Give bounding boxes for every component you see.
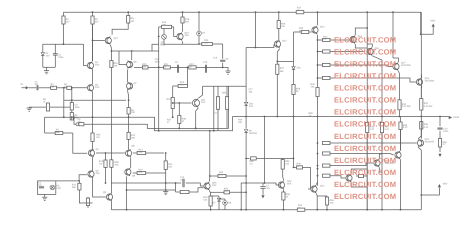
- ground stem mid: [165, 190, 167, 192]
- wire R11 down: [79, 190, 92, 203]
- wire branch t0: [330, 39, 350, 41]
- node bus2 209: [209, 130, 211, 132]
- capacitor C2: [35, 81, 40, 91]
- wire rail col 421: [420, 12, 422, 74]
- svg-text:Q26: Q26: [160, 43, 165, 46]
- wire vas base col: [172, 86, 174, 98]
- svg-text:100n: 100n: [443, 130, 449, 133]
- wire Q25 collector: [208, 131, 211, 182]
- node y61: [276, 61, 278, 63]
- transistor Q4: [88, 170, 100, 179]
- wire R59 top: [246, 157, 250, 159]
- resistor R54: [211, 188, 247, 194]
- node box left bus: [213, 130, 215, 132]
- resistor R38: [325, 196, 334, 210]
- transistor Q3: [88, 148, 99, 157]
- resistor R27: [276, 61, 285, 116]
- node Q9 rail: [126, 209, 128, 211]
- node y67 a: [158, 67, 160, 69]
- svg-text:C16: C16: [213, 57, 218, 60]
- node q25 rc: [175, 182, 177, 184]
- wire vas column: [158, 27, 160, 131]
- node cs bottom: [105, 182, 107, 184]
- svg-text:100p: 100p: [155, 61, 161, 64]
- node Q15 col: [366, 27, 368, 29]
- resistor R60: [250, 157, 294, 166]
- node R8 top: [127, 11, 129, 13]
- resistor R7: [45, 128, 73, 134]
- svg-text:ELCIRCUIT.COM: ELCIRCUIT.COM: [334, 120, 396, 129]
- resistor R56: [110, 160, 120, 183]
- resistor R6: [70, 113, 79, 121]
- label R49: [238, 119, 243, 125]
- svg-text:1N4148: 1N4148: [249, 132, 258, 135]
- wire bias cap column: [222, 44, 224, 59]
- ground zobel: [438, 154, 441, 157]
- transistor Q25: [204, 182, 217, 191]
- node lineA 92: [92, 116, 94, 118]
- node r58 rail: [283, 209, 285, 211]
- node input junction: [63, 87, 65, 89]
- resistor Rb3: [318, 76, 331, 79]
- resistor R29: [294, 27, 312, 34]
- wire Q6 collector: [131, 51, 133, 60]
- capacitor C8: [220, 58, 229, 62]
- resistor R14: [164, 153, 173, 183]
- node R2 top: [92, 11, 94, 13]
- node col382 rail: [381, 209, 383, 211]
- resistor R15: [133, 169, 166, 175]
- wire 165 to gnd wire: [165, 183, 167, 190]
- wire Q6-Q7: [127, 70, 129, 83]
- wire q25 rc down: [175, 183, 177, 192]
- node Q13 top: [317, 11, 319, 13]
- diode C5: [161, 28, 166, 46]
- node output line g: [381, 116, 383, 118]
- wire zd1 col extension: [293, 117, 295, 168]
- wire Q19 emitter: [351, 169, 367, 174]
- transistor Q11: [192, 99, 205, 108]
- wire rail drop 255: [255, 12, 257, 47]
- wire feedback column 2: [71, 110, 73, 113]
- wire Q14 emitter: [315, 193, 318, 209]
- resistor R24: [167, 98, 175, 109]
- resistor R20: [142, 63, 148, 69]
- svg-text:2SC5200: 2SC5200: [425, 80, 435, 83]
- capacitor C4: [38, 181, 44, 188]
- svg-text:Q13: Q13: [320, 26, 325, 29]
- wire R8 down: [112, 23, 128, 35]
- wire Q21 collector: [379, 167, 382, 172]
- node col393 top: [392, 11, 394, 13]
- wire Q18 emitter: [420, 86, 423, 98]
- wire Q13 collector: [317, 12, 319, 25]
- svg-text:0.22: 0.22: [424, 126, 429, 129]
- node -v: [420, 194, 422, 196]
- svg-text:2SC5200: 2SC5200: [401, 64, 411, 67]
- wire rail col 393: [392, 12, 394, 58]
- node lineA 128: [128, 116, 130, 118]
- node zd y176: [245, 175, 247, 177]
- capacitor C11: [215, 86, 220, 131]
- resistor R25: [222, 86, 229, 128]
- resistor Rc3: [323, 174, 331, 177]
- node y100 right: [128, 99, 130, 101]
- svg-text:2SC: 2SC: [185, 34, 190, 37]
- svg-text:0.22 5W: 0.22 5W: [402, 105, 411, 108]
- wire Q19 collector: [351, 182, 367, 187]
- svg-text:ELCIRCUIT.COM: ELCIRCUIT.COM: [334, 144, 396, 153]
- transistor Q5: [103, 191, 113, 201]
- wire feedback column 3: [71, 117, 73, 120]
- resistor R8: [127, 12, 135, 23]
- node Q11 bus: [195, 127, 197, 129]
- wire y183: [111, 182, 181, 184]
- watermark ELCIRCUIT.COM column: [334, 36, 396, 201]
- node bus1 195: [195, 127, 197, 129]
- resistor R44 inline rail: [297, 204, 305, 211]
- capacitor C3: [70, 103, 80, 111]
- wire y61 link: [277, 60, 293, 62]
- svg-text:ELCIRCUIT.COM: ELCIRCUIT.COM: [334, 156, 396, 165]
- node gnd y190: [165, 189, 167, 191]
- node vas y67: [158, 67, 160, 69]
- wire base link left: [241, 183, 264, 210]
- capacitor C13: [437, 127, 449, 133]
- comp box left: [213, 86, 215, 131]
- svg-text:R27: R27: [280, 67, 285, 70]
- wire rail col 421 low: [420, 122, 422, 139]
- svg-text:100u: 100u: [75, 106, 81, 109]
- node bias: [78, 180, 80, 182]
- wire Q23 collector: [418, 129, 421, 139]
- transistor Q17: [393, 62, 411, 71]
- wire Q15 emitter: [355, 44, 367, 48]
- wire zd column mid: [245, 105, 247, 129]
- wire D8 link: [219, 198, 225, 200]
- resistor Rb0: [318, 35, 331, 41]
- svg-text:ELCIRCUIT.COM: ELCIRCUIT.COM: [334, 48, 396, 57]
- wire Q17 emitter: [398, 71, 399, 100]
- wire Q2 emitter: [92, 92, 94, 133]
- node 209 y176: [209, 175, 211, 177]
- transistor Q10: [177, 32, 190, 41]
- node y67 right: [222, 67, 224, 69]
- resistor R34: [380, 117, 389, 151]
- resistor R32: [420, 99, 433, 117]
- node branch t1: [317, 51, 319, 53]
- svg-text:R24: R24: [167, 98, 172, 101]
- transistor Q16: [367, 47, 380, 56]
- wire R7 riser: [44, 117, 46, 133]
- wire branch b3: [330, 176, 346, 178]
- node col367 top: [366, 11, 368, 13]
- wire col367 bottom: [366, 133, 368, 210]
- svg-text:2SC: 2SC: [95, 86, 100, 89]
- resistor R33: [366, 117, 375, 210]
- wire C7 column: [264, 117, 266, 184]
- transistor Q23: [417, 138, 434, 147]
- wire rail right down: [420, 74, 422, 99]
- diode D5: [50, 185, 61, 191]
- label R50: [309, 112, 314, 118]
- svg-text:2SA: 2SA: [96, 172, 101, 175]
- node vas bus: [158, 130, 160, 132]
- node output line b: [264, 116, 266, 118]
- node vas base tap: [172, 102, 174, 104]
- svg-text:ELCIRCUIT.COM: ELCIRCUIT.COM: [334, 192, 396, 201]
- transistor Q6: [127, 61, 138, 69]
- node r38 rail: [326, 209, 328, 211]
- wire Q18 collector: [420, 74, 423, 78]
- resistor Rc0: [323, 141, 331, 144]
- wire R7 to Q: [73, 133, 87, 153]
- svg-text:2SC: 2SC: [212, 184, 217, 187]
- svg-text:Q14: Q14: [320, 185, 325, 188]
- wire Q1-Q2: [92, 70, 94, 85]
- wire y67 down: [186, 67, 188, 86]
- node vas col bus: [172, 116, 174, 118]
- svg-text:ELCIRCUIT.COM: ELCIRCUIT.COM: [334, 96, 396, 105]
- node lineA 65: [63, 116, 65, 118]
- wire ground return: [29, 106, 70, 108]
- svg-text:100u: 100u: [58, 56, 64, 59]
- wire Q11 emitter: [196, 108, 199, 129]
- wire bias up: [79, 175, 87, 181]
- capacitor C14: [180, 176, 185, 187]
- resistor R35: [399, 117, 408, 151]
- svg-text:ELCIRCUIT.COM: ELCIRCUIT.COM: [334, 36, 396, 45]
- node output line f: [366, 116, 368, 118]
- transistor Q24: [278, 180, 292, 189]
- ground input: [27, 108, 32, 111]
- wire C6 stub: [74, 117, 76, 124]
- capacitor C7: [260, 183, 270, 195]
- wire zd column bottom: [245, 133, 247, 210]
- node branch b1: [317, 153, 319, 155]
- wire Q27 emitter: [110, 45, 111, 51]
- svg-text:2SC: 2SC: [95, 64, 100, 67]
- diode D8: [223, 199, 232, 210]
- wire Q4 emitter: [93, 178, 106, 197]
- node 255 rail: [255, 11, 257, 13]
- svg-text:15V: 15V: [249, 105, 254, 108]
- wire Q23 emitter: [418, 147, 421, 209]
- wire bias cap column 2: [222, 63, 224, 68]
- svg-text:ELCIRCUIT.COM: ELCIRCUIT.COM: [334, 168, 396, 177]
- ground stem input: [28, 106, 30, 109]
- node R43 rail: [210, 209, 212, 211]
- resistor R21: [164, 63, 171, 69]
- resistor R3: [51, 83, 57, 89]
- svg-text:-85V: -85V: [443, 183, 448, 186]
- wire col 382 upper: [381, 60, 383, 117]
- node r60 zd: [245, 158, 247, 160]
- transistor Q15: [350, 35, 363, 44]
- label Q26: [160, 43, 165, 46]
- wire Q9 emitter: [126, 176, 128, 209]
- wire Q17 collector: [393, 58, 398, 62]
- resistor R5: [43, 98, 50, 111]
- label C17: [249, 88, 254, 94]
- diode D4: [197, 12, 206, 44]
- wire mid node: [64, 99, 126, 101]
- transistor Q22: [385, 151, 401, 165]
- wire filter bottom: [43, 66, 56, 68]
- svg-text:2SA1943: 2SA1943: [425, 141, 435, 144]
- node col367 rail: [366, 209, 368, 211]
- wire branch b2: [330, 163, 373, 166]
- svg-text:2SC: 2SC: [201, 101, 206, 104]
- node y51: [111, 50, 113, 52]
- resistor R51: [110, 51, 119, 160]
- resistor R16: [159, 21, 174, 28]
- resistor R53: [86, 197, 89, 208]
- svg-text:ELCIRCUIT.COM: ELCIRCUIT.COM: [334, 72, 396, 81]
- node base link: [264, 182, 266, 184]
- node q27 base: [92, 40, 94, 42]
- transistor Q8: [126, 145, 136, 158]
- wire zd1 column: [293, 32, 295, 67]
- svg-text:0.22: 0.22: [403, 126, 408, 129]
- svg-text:+85V: +85V: [430, 20, 436, 23]
- transistor Q27: [105, 37, 118, 45]
- ground bias box: [42, 197, 47, 200]
- node 165 y183: [165, 182, 167, 184]
- resistor R55: [91, 133, 101, 150]
- node branch b3: [317, 175, 319, 177]
- node c6 stub: [73, 116, 75, 118]
- resistor R59: [281, 158, 290, 169]
- resistor R11: [72, 181, 81, 190]
- node lineA 71: [71, 116, 73, 118]
- wire y67 row: [134, 66, 223, 68]
- resistor R58: [282, 189, 291, 209]
- wire branch t2: [330, 65, 393, 67]
- node r48 bus: [178, 127, 180, 129]
- resistor R30: [311, 83, 320, 97]
- transistor Q12: [274, 40, 287, 49]
- wire zobel top: [439, 117, 441, 127]
- wire negative rail 2: [305, 209, 422, 211]
- resistor R9: [127, 108, 136, 115]
- resistor R28: [292, 84, 301, 116]
- wire Q5 collector: [110, 183, 112, 193]
- wire branch b1: [330, 154, 394, 156]
- comp box right: [228, 86, 230, 128]
- svg-text:C10: C10: [203, 61, 208, 64]
- label C15: [155, 58, 161, 64]
- node output line j: [439, 116, 441, 118]
- wire Q1 base: [84, 44, 88, 65]
- node branch t3: [317, 77, 319, 79]
- transistor Q9: [125, 168, 136, 177]
- wire input junction down: [63, 100, 65, 117]
- node zd rail: [245, 209, 247, 211]
- wire input: [29, 87, 37, 89]
- wire zobel low: [439, 147, 441, 152]
- node output line a: [245, 116, 247, 118]
- svg-text:ZD1: ZD1: [297, 67, 302, 70]
- wire q25 rc right: [189, 188, 204, 192]
- wire Q21 emitter: [379, 154, 382, 159]
- resistor R45: [438, 139, 447, 148]
- node R13 right: [165, 152, 167, 154]
- input terminal: [21, 83, 29, 89]
- wire R16 to base: [174, 27, 177, 37]
- label C16: [213, 57, 218, 60]
- svg-text:Q12: Q12: [282, 40, 287, 43]
- wire Q22 emitter: [399, 159, 401, 209]
- wire filter top: [43, 43, 84, 45]
- svg-text:LOAD: LOAD: [453, 116, 460, 119]
- node col400 rail: [400, 209, 402, 211]
- wire C14 to Q25: [186, 183, 204, 186]
- transistor Q13: [312, 26, 325, 35]
- wire bus lineB: [84, 124, 229, 128]
- svg-text:2SA: 2SA: [287, 183, 292, 186]
- svg-text:ELCIRCUIT.COM: ELCIRCUIT.COM: [334, 60, 396, 69]
- resistor Rb1: [318, 50, 331, 53]
- wire vas jog: [152, 44, 159, 51]
- node r48 top: [178, 102, 180, 104]
- -V supply terminal: [438, 183, 448, 188]
- wire Q24 collector: [283, 169, 284, 181]
- svg-text:Q27: Q27: [114, 37, 119, 40]
- box bias left/top/right/bottom: [37, 181, 55, 195]
- wire y51: [111, 50, 158, 52]
- svg-text:R36: R36: [424, 123, 429, 126]
- svg-text:ELCIRCUIT.COM: ELCIRCUIT.COM: [334, 84, 396, 93]
- ground filter: [44, 71, 49, 74]
- wire branch t1: [330, 51, 364, 53]
- wire input 3: [57, 87, 67, 89]
- output arrow: [449, 116, 460, 119]
- wire y67 to gnd: [223, 67, 228, 71]
- resistor Rb2: [318, 63, 331, 66]
- node q6 col: [131, 50, 133, 52]
- wire y44 row: [164, 43, 199, 45]
- capacitor C6: [76, 118, 84, 126]
- transistor Q21: [374, 159, 387, 168]
- node r59 col: [293, 158, 295, 160]
- node vas y36: [158, 36, 160, 38]
- wire bus lineA: [45, 117, 233, 131]
- wire rail col 367: [366, 12, 368, 116]
- wire col382 bottom: [381, 133, 383, 210]
- ground C7: [261, 195, 264, 198]
- zener ZD2: [244, 102, 254, 108]
- svg-text:R32: R32: [424, 102, 429, 105]
- wire Q14 base: [308, 167, 311, 189]
- wire Q3 link: [96, 152, 125, 154]
- node branch t0: [317, 39, 319, 41]
- node branch t2: [317, 64, 319, 66]
- node branch b2: [317, 165, 319, 167]
- svg-text:R25: R25: [222, 92, 227, 95]
- wire Q5 emitter: [110, 201, 112, 210]
- zener ZD1: [292, 67, 302, 70]
- resistor R42: [210, 171, 246, 177]
- wire Q24 base link: [265, 183, 281, 185]
- resistor R43: [209, 196, 212, 210]
- wire y190: [126, 189, 176, 191]
- resistor R31: [398, 100, 411, 117]
- resistor R10: [99, 153, 107, 183]
- wire zd base link: [246, 45, 274, 48]
- node r54 zd: [245, 191, 247, 193]
- diode D7: [213, 196, 221, 210]
